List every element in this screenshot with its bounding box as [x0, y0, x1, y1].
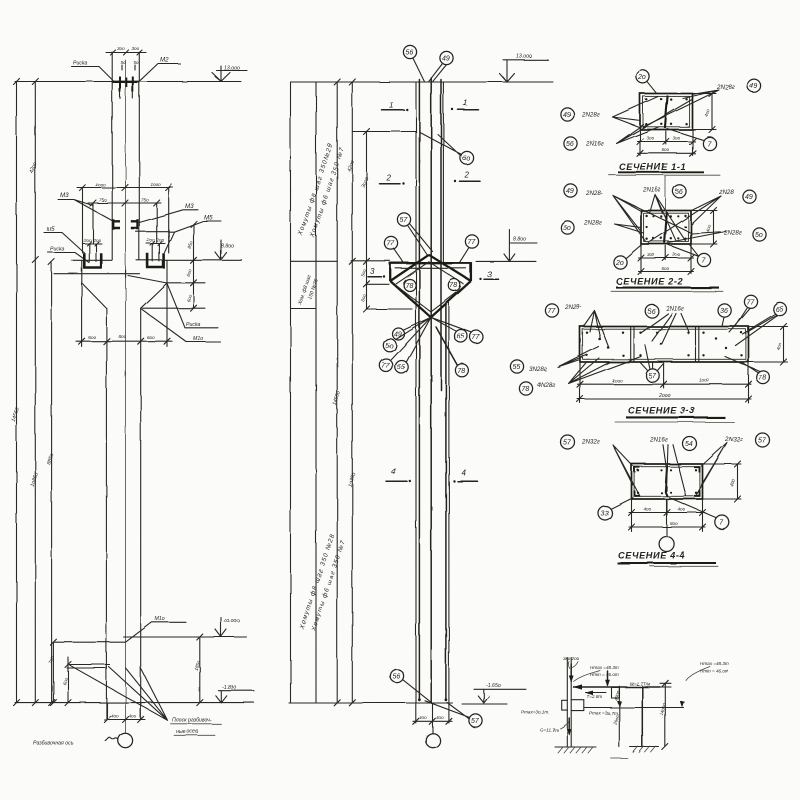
band divider upper [291, 260, 338, 262]
leader fan from diamond vertex [391, 317, 471, 361]
section 1-1 outer box [640, 94, 693, 130]
label 57 2N32 left sec4 [561, 435, 575, 449]
svg-text:2oo: 2oo [146, 238, 155, 243]
section 3-3 outer box [580, 327, 749, 363]
svg-text:1ooo: 1ooo [151, 182, 162, 187]
svg-text:3oo: 3oo [132, 46, 140, 51]
svg-text:77: 77 [382, 363, 391, 370]
dim 700 vertical [52, 642, 54, 702]
leader fan to axis note [70, 665, 168, 720]
svg-text:65: 65 [775, 307, 783, 314]
dim line 1000 1000 [77, 187, 173, 189]
section 2-2 center wall [665, 212, 667, 243]
svg-text:-1.85o: -1.85o [222, 685, 237, 691]
dim 1850 vertical [199, 637, 201, 703]
corbel top surface line [72, 259, 243, 261]
circle 65 top-right sec3 [773, 302, 786, 315]
svg-text:W=1.7Т/м: W=1.7Т/м [630, 682, 651, 687]
sec3 bottom dims [580, 362, 749, 403]
svg-text:2oo: 2oo [83, 238, 92, 243]
section 3-3 inner stirrup [583, 329, 746, 359]
svg-text:M3: M3 [60, 192, 69, 199]
svg-text:6oo: 6oo [88, 335, 96, 340]
svg-text:Pucka: Pucka [73, 61, 88, 67]
corbel taper diagonals [82, 283, 167, 308]
svg-text:4N28г: 4N28г [537, 382, 555, 389]
svg-text:5o: 5o [563, 225, 571, 232]
svg-text:2N28: 2N28 [718, 189, 734, 196]
dim line 4200 10350 mid [351, 82, 353, 703]
sec2 right dim 400 [691, 208, 717, 248]
svg-text:8oo: 8oo [670, 521, 678, 526]
label 55 3N28 left sec3 [510, 360, 523, 373]
circle 77 lower right [470, 331, 483, 344]
band divider lower [291, 308, 317, 310]
label 56 2N16 left sec1 [564, 137, 577, 150]
upper column right face [442, 82, 444, 265]
stub extensions mid [416, 703, 449, 723]
lower column right face [448, 301, 450, 703]
section 1-1 rebar dots [645, 98, 688, 125]
section 3-3 internal wall right [696, 327, 699, 362]
svg-text:СЕЧЕНИЕ 1-1: СЕЧЕНИЕ 1-1 [619, 162, 686, 172]
svg-text:49: 49 [566, 188, 574, 195]
svg-text:2ooo: 2ooo [658, 393, 671, 399]
lower column right face [140, 308, 142, 719]
corbel lower diagonals bold [390, 281, 471, 317]
svg-text:78: 78 [405, 283, 413, 290]
svg-text:8oo: 8oo [119, 334, 127, 339]
sec1 right dim 400 [693, 91, 717, 133]
leaders 60 [420, 132, 462, 156]
svg-text:2: 2 [464, 171, 470, 180]
corbel edge extensions to dim [82, 283, 167, 347]
svg-text:78: 78 [450, 283, 458, 290]
section 4-4 corner marks [635, 467, 700, 496]
M10 plate line in column [53, 641, 125, 643]
svg-text:3: 3 [370, 267, 375, 276]
embedded channel M5 right [147, 253, 165, 268]
svg-text:49: 49 [750, 83, 758, 90]
left outer dim line 14550 [16, 82, 18, 703]
svg-text:2N16г: 2N16г [665, 306, 684, 313]
svg-text:2o: 2o [615, 260, 624, 267]
column upper shaft right face [138, 52, 140, 260]
circle 20 sec1 [636, 70, 649, 83]
section 2-2 inner stirrup [644, 213, 689, 241]
horizontal dim connector y284 [367, 283, 390, 285]
svg-text:56: 56 [566, 141, 574, 148]
circle 7 sec1 [703, 137, 716, 150]
faint mark bottom [611, 758, 628, 760]
circle 7 sec4 [715, 515, 729, 529]
circle 65 lower right [455, 330, 468, 343]
svg-text:49: 49 [563, 112, 571, 119]
svg-text:4oo: 4oo [644, 507, 652, 512]
svg-text:3oo: 3oo [117, 46, 125, 51]
svg-text:77: 77 [747, 299, 756, 306]
circle 77 top-right sec3 [744, 295, 757, 308]
svg-text:49: 49 [394, 332, 402, 339]
dim 600 vertical small [67, 657, 69, 703]
mid dim line [618, 686, 620, 747]
svg-text:±o.ooo: ±o.ooo [224, 619, 240, 625]
circle 57 bottom [469, 714, 482, 727]
svg-text:33: 33 [601, 511, 609, 518]
svg-text:77: 77 [468, 239, 477, 246]
svg-text:Pucka: Pucka [186, 322, 201, 328]
svg-text:8.8oo: 8.8oo [513, 237, 526, 243]
level line 8.800 right [476, 260, 536, 262]
sec4 bottom dims [632, 499, 703, 532]
circle 36 sec3 [718, 304, 731, 317]
label 78 4N28 left sec3 [519, 382, 532, 395]
ground hatch left [555, 746, 596, 748]
circle 56 top [403, 45, 416, 58]
svg-text:57: 57 [758, 438, 767, 445]
embedded plate M3 right [131, 219, 138, 230]
svg-text:Pucka: Pucka [50, 247, 65, 253]
circle 50 below corbel [383, 339, 396, 352]
svg-text:57: 57 [563, 440, 572, 447]
svg-text:57: 57 [471, 718, 480, 725]
circle 49 top [440, 51, 453, 64]
dim line 600 800 600 [76, 340, 172, 342]
svg-text:2N32г: 2N32г [724, 436, 743, 443]
lower column left face [105, 308, 107, 719]
svg-text:56: 56 [647, 309, 655, 316]
svg-text:3oo: 3oo [673, 252, 681, 257]
svg-text:49: 49 [442, 56, 450, 63]
rebar right upper [440, 80, 442, 391]
column upper shaft left face [111, 52, 113, 260]
svg-text:2N16г: 2N16г [642, 187, 661, 194]
corbel inner lines [396, 262, 467, 312]
svg-text:2N28г: 2N28г [583, 220, 602, 227]
svg-text:5o: 5o [755, 232, 763, 239]
leaders top circles [413, 58, 447, 82]
svg-text:36: 36 [720, 308, 728, 315]
svg-text:2N16г: 2N16г [649, 437, 668, 444]
column axis line [125, 60, 127, 733]
sec4 right dim 400 [703, 461, 742, 502]
dim 200 200 left corbel [83, 243, 102, 245]
corbel side bold left [389, 262, 391, 281]
svg-text:4oo: 4oo [111, 714, 119, 719]
svg-text:ные осей: ные осей [176, 728, 198, 735]
svg-text:3: 3 [487, 270, 492, 279]
svg-text:Плоск разбивоч-: Плоск разбивоч- [172, 718, 212, 724]
circle 56 bottom [390, 669, 403, 682]
corbel top bold chord [390, 262, 471, 264]
svg-text:78: 78 [457, 368, 465, 375]
ground level line 0.000 [124, 636, 247, 638]
svg-text:55: 55 [397, 365, 405, 372]
extension verticals corbel bolts outer [83, 188, 169, 254]
T label with arrow [586, 692, 607, 694]
svg-text:5o: 5o [121, 60, 127, 65]
svg-text:Hmax =48.3т: Hmax =48.3т [700, 661, 729, 666]
svg-text:56: 56 [406, 50, 414, 57]
rebar line left [418, 80, 420, 700]
sec4 axis circle [659, 537, 674, 552]
corbel step on pole [562, 700, 584, 711]
svg-text:1: 1 [463, 99, 467, 108]
anchor bolts M2 [120, 77, 133, 93]
svg-text:4oo: 4oo [436, 715, 444, 720]
svg-text:4oo: 4oo [678, 507, 686, 512]
svg-text:Hmax =48.3т: Hmax =48.3т [590, 665, 619, 670]
svg-text:T=2.8т: T=2.8т [587, 694, 603, 699]
svg-text:54: 54 [685, 441, 693, 448]
G down arrow [568, 718, 570, 734]
svg-text:75o: 75o [99, 198, 107, 203]
svg-text:СЕЧЕНИЕ 2-2: СЕЧЕНИЕ 2-2 [616, 277, 683, 287]
section 3-3 rebar dots [586, 332, 743, 357]
label 77 2N28 top-left sec3 [545, 304, 558, 317]
circle 77 left of corbel [384, 236, 397, 249]
section 2-2 rebar dots [645, 215, 686, 240]
load bracket line [584, 707, 684, 709]
svg-text:2o: 2o [637, 74, 646, 81]
section 4-4 rebar dots [637, 469, 697, 494]
leaders 57 [408, 224, 433, 255]
svg-text:Hmin = 46.oт: Hmin = 46.oт [700, 669, 729, 674]
section 4-4 inner stirrup [634, 467, 700, 497]
circle 77 right of corbel [465, 235, 478, 248]
svg-text:4: 4 [391, 467, 396, 476]
horizontal tie line y131 [352, 131, 416, 133]
svg-text:4oo: 4oo [129, 714, 137, 719]
right dim 14000 [664, 683, 666, 747]
svg-text:3N28г: 3N28г [529, 366, 547, 373]
svg-text:3oo: 3oo [647, 252, 655, 257]
corbel outer sides [82, 260, 167, 283]
svg-text:2N28г: 2N28г [723, 230, 742, 237]
svg-text:56: 56 [393, 674, 401, 681]
svg-text:1ooo: 1ooo [612, 378, 623, 383]
circle 78 in right pocket [448, 279, 460, 291]
svg-text:4oo: 4oo [419, 715, 427, 720]
svg-text:2N28г: 2N28г [581, 112, 600, 119]
svg-text:Hmin = 46.oт: Hmin = 46.oт [590, 672, 619, 677]
svg-text:2N32г: 2N32г [581, 439, 600, 446]
label 50 2N28 mid-left sec2 [561, 221, 574, 234]
dim 400 400 mid bottom [413, 720, 452, 722]
svg-text:78: 78 [759, 375, 767, 382]
svg-text:5o: 5o [385, 343, 393, 350]
svg-text:M1o: M1o [155, 617, 165, 623]
label 49 2N28 left sec1 [561, 108, 574, 121]
small down arrow at pole top [570, 664, 572, 681]
force line H with arrow [574, 686, 661, 688]
circle 49 below corbel [393, 328, 405, 340]
svg-text:13.ooo: 13.ooo [516, 54, 532, 60]
section 1-1 inner stirrup [643, 96, 690, 126]
rebar end hooks [418, 698, 421, 701]
W top line [660, 683, 671, 687]
svg-text:56: 56 [675, 189, 683, 196]
svg-text:57: 57 [648, 373, 657, 380]
crossing leader to Riska lower [128, 276, 167, 284]
circle 78 right sec3 [757, 371, 770, 384]
svg-text:77: 77 [387, 241, 396, 248]
svg-text:-1.65o: -1.65o [486, 683, 501, 689]
corbel bolts right [153, 244, 160, 262]
svg-text:2N28-: 2N28- [564, 304, 582, 311]
svg-text:3кр 2оо: 3кр 2оо [563, 656, 580, 661]
column top bold plate [112, 81, 140, 83]
svg-text:4: 4 [462, 469, 467, 478]
horizontal dim connector y309 [367, 308, 413, 310]
section 4-4 center wall [665, 466, 667, 497]
svg-text:2N16г: 2N16г [585, 141, 604, 148]
svg-text:65: 65 [457, 334, 465, 341]
corbel apex diagonals bold [390, 255, 471, 281]
svg-text:6oo: 6oo [662, 266, 670, 271]
right dim stack 850 600 600 [193, 224, 195, 308]
top dimension line 300 300 [106, 52, 146, 54]
svg-text:СЕЧЕНИЕ 4-4: СЕЧЕНИЕ 4-4 [618, 551, 685, 561]
svg-text:2: 2 [386, 174, 392, 183]
base line mid [289, 703, 507, 704]
svg-text:5o: 5o [134, 60, 140, 65]
svg-text:СЕЧЕНИЕ 3-3: СЕЧЕНИЕ 3-3 [628, 406, 695, 416]
svg-text:8.8oo: 8.8oo [221, 244, 234, 250]
svg-text:Pmax=3o,1т.: Pmax=3o,1т. [521, 710, 549, 715]
circle 7 sec2 [697, 253, 710, 266]
svg-text:6oo: 6oo [147, 335, 155, 340]
svg-text:3oo: 3oo [647, 136, 655, 141]
svg-text:77: 77 [472, 335, 481, 342]
dim line 400 400 bottom [104, 719, 145, 721]
svg-text:77: 77 [548, 308, 557, 315]
section 2-2 outer box [641, 211, 691, 245]
sec3 right dim 400 [749, 324, 788, 366]
dim 3000 500 600 line [366, 132, 368, 310]
circle 55 lower left [395, 361, 408, 374]
label 49 2N28 top-left sec2 [564, 184, 577, 197]
bolt axes M5 [93, 203, 157, 244]
third dim line 8850 [51, 262, 53, 703]
embedded plate M3 left [113, 219, 120, 230]
right post [641, 686, 643, 747]
svg-text:49: 49 [745, 194, 753, 201]
horizontal dim connector y261 [351, 260, 390, 262]
circle 57 sec3 [646, 369, 659, 382]
svg-text:Разбивочная ось: Разбивочная ось [33, 741, 74, 747]
circle 57 upper [397, 213, 410, 226]
ground hatch right [630, 746, 659, 748]
svg-text:75o: 75o [141, 198, 149, 203]
embedded channel M5 left [83, 253, 102, 268]
corbel side bold right [470, 262, 472, 281]
svg-text:M3: M3 [185, 203, 194, 210]
dim 200 200 right corbel [147, 243, 166, 245]
svg-text:55: 55 [513, 364, 521, 371]
lower rebar right [445, 305, 447, 700]
circle 60 [460, 151, 473, 164]
axis circle left [118, 733, 132, 747]
svg-text:3oo: 3oo [673, 136, 681, 141]
svg-text:2oo: 2oo [156, 238, 165, 243]
circle 20 sec2 [613, 255, 626, 268]
svg-text:78: 78 [522, 386, 530, 393]
svg-text:1ooo: 1ooo [699, 378, 710, 383]
corbel bolts left [89, 244, 96, 262]
svg-text:1: 1 [389, 101, 393, 110]
base line [15, 702, 254, 704]
label 56 2N16 top sec3 [645, 304, 658, 317]
sec1 bottom dims [640, 130, 693, 156]
top level line [291, 81, 554, 83]
section 3-3 internal wall left [631, 327, 634, 362]
second dim line 4200 / 10850 [34, 82, 36, 703]
circle 33 sec4 [598, 506, 612, 520]
dim line 14550 mid [336, 82, 338, 703]
upper column left face [415, 82, 417, 703]
svg-text:G=11.7т: G=11.7т [540, 728, 559, 733]
circle 78 in left pocket [404, 279, 416, 291]
top level line 13.000 [15, 81, 241, 83]
anchor bolt level lines [67, 665, 110, 669]
svg-text:6oo: 6oo [662, 148, 670, 153]
squiggle to axis label [106, 738, 119, 741]
band column lines [291, 82, 317, 703]
section 4-4 outer box [632, 464, 703, 499]
svg-text:2N28-: 2N28- [585, 190, 603, 197]
section 1-1 center wall [665, 96, 668, 129]
sec2 bottom dims [641, 244, 691, 274]
foundation stub extensions [107, 703, 141, 720]
pole double line [567, 658, 571, 748]
level line y273 [54, 270, 140, 278]
circle 77 lower left [380, 359, 393, 372]
svg-text:6o: 6o [463, 156, 471, 163]
svg-text:2oo: 2oo [92, 238, 101, 243]
circle 78 lower right [455, 364, 468, 377]
svg-text:57: 57 [400, 217, 409, 224]
svg-text:1ooo: 1ooo [95, 182, 106, 187]
rebar center [430, 78, 432, 703]
dim line 750 750 [88, 202, 161, 204]
svg-text:M2: M2 [160, 57, 169, 64]
axis circle mid [426, 733, 440, 747]
